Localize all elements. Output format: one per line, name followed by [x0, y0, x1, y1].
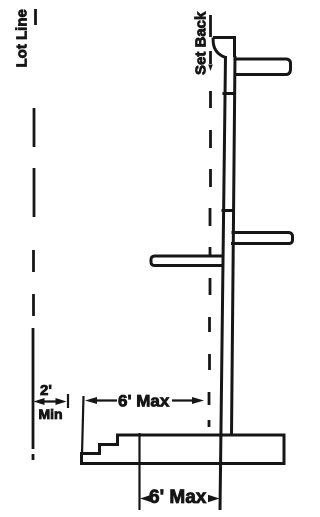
svg-text:Set Back: Set Back [193, 11, 210, 75]
svg-text:6' Max: 6' Max [149, 487, 207, 508]
svg-text:6' Max: 6' Max [118, 391, 170, 410]
svg-text:2': 2' [40, 382, 52, 399]
svg-text:Min: Min [39, 406, 63, 422]
svg-text:Lot Line: Lot Line [14, 9, 31, 67]
